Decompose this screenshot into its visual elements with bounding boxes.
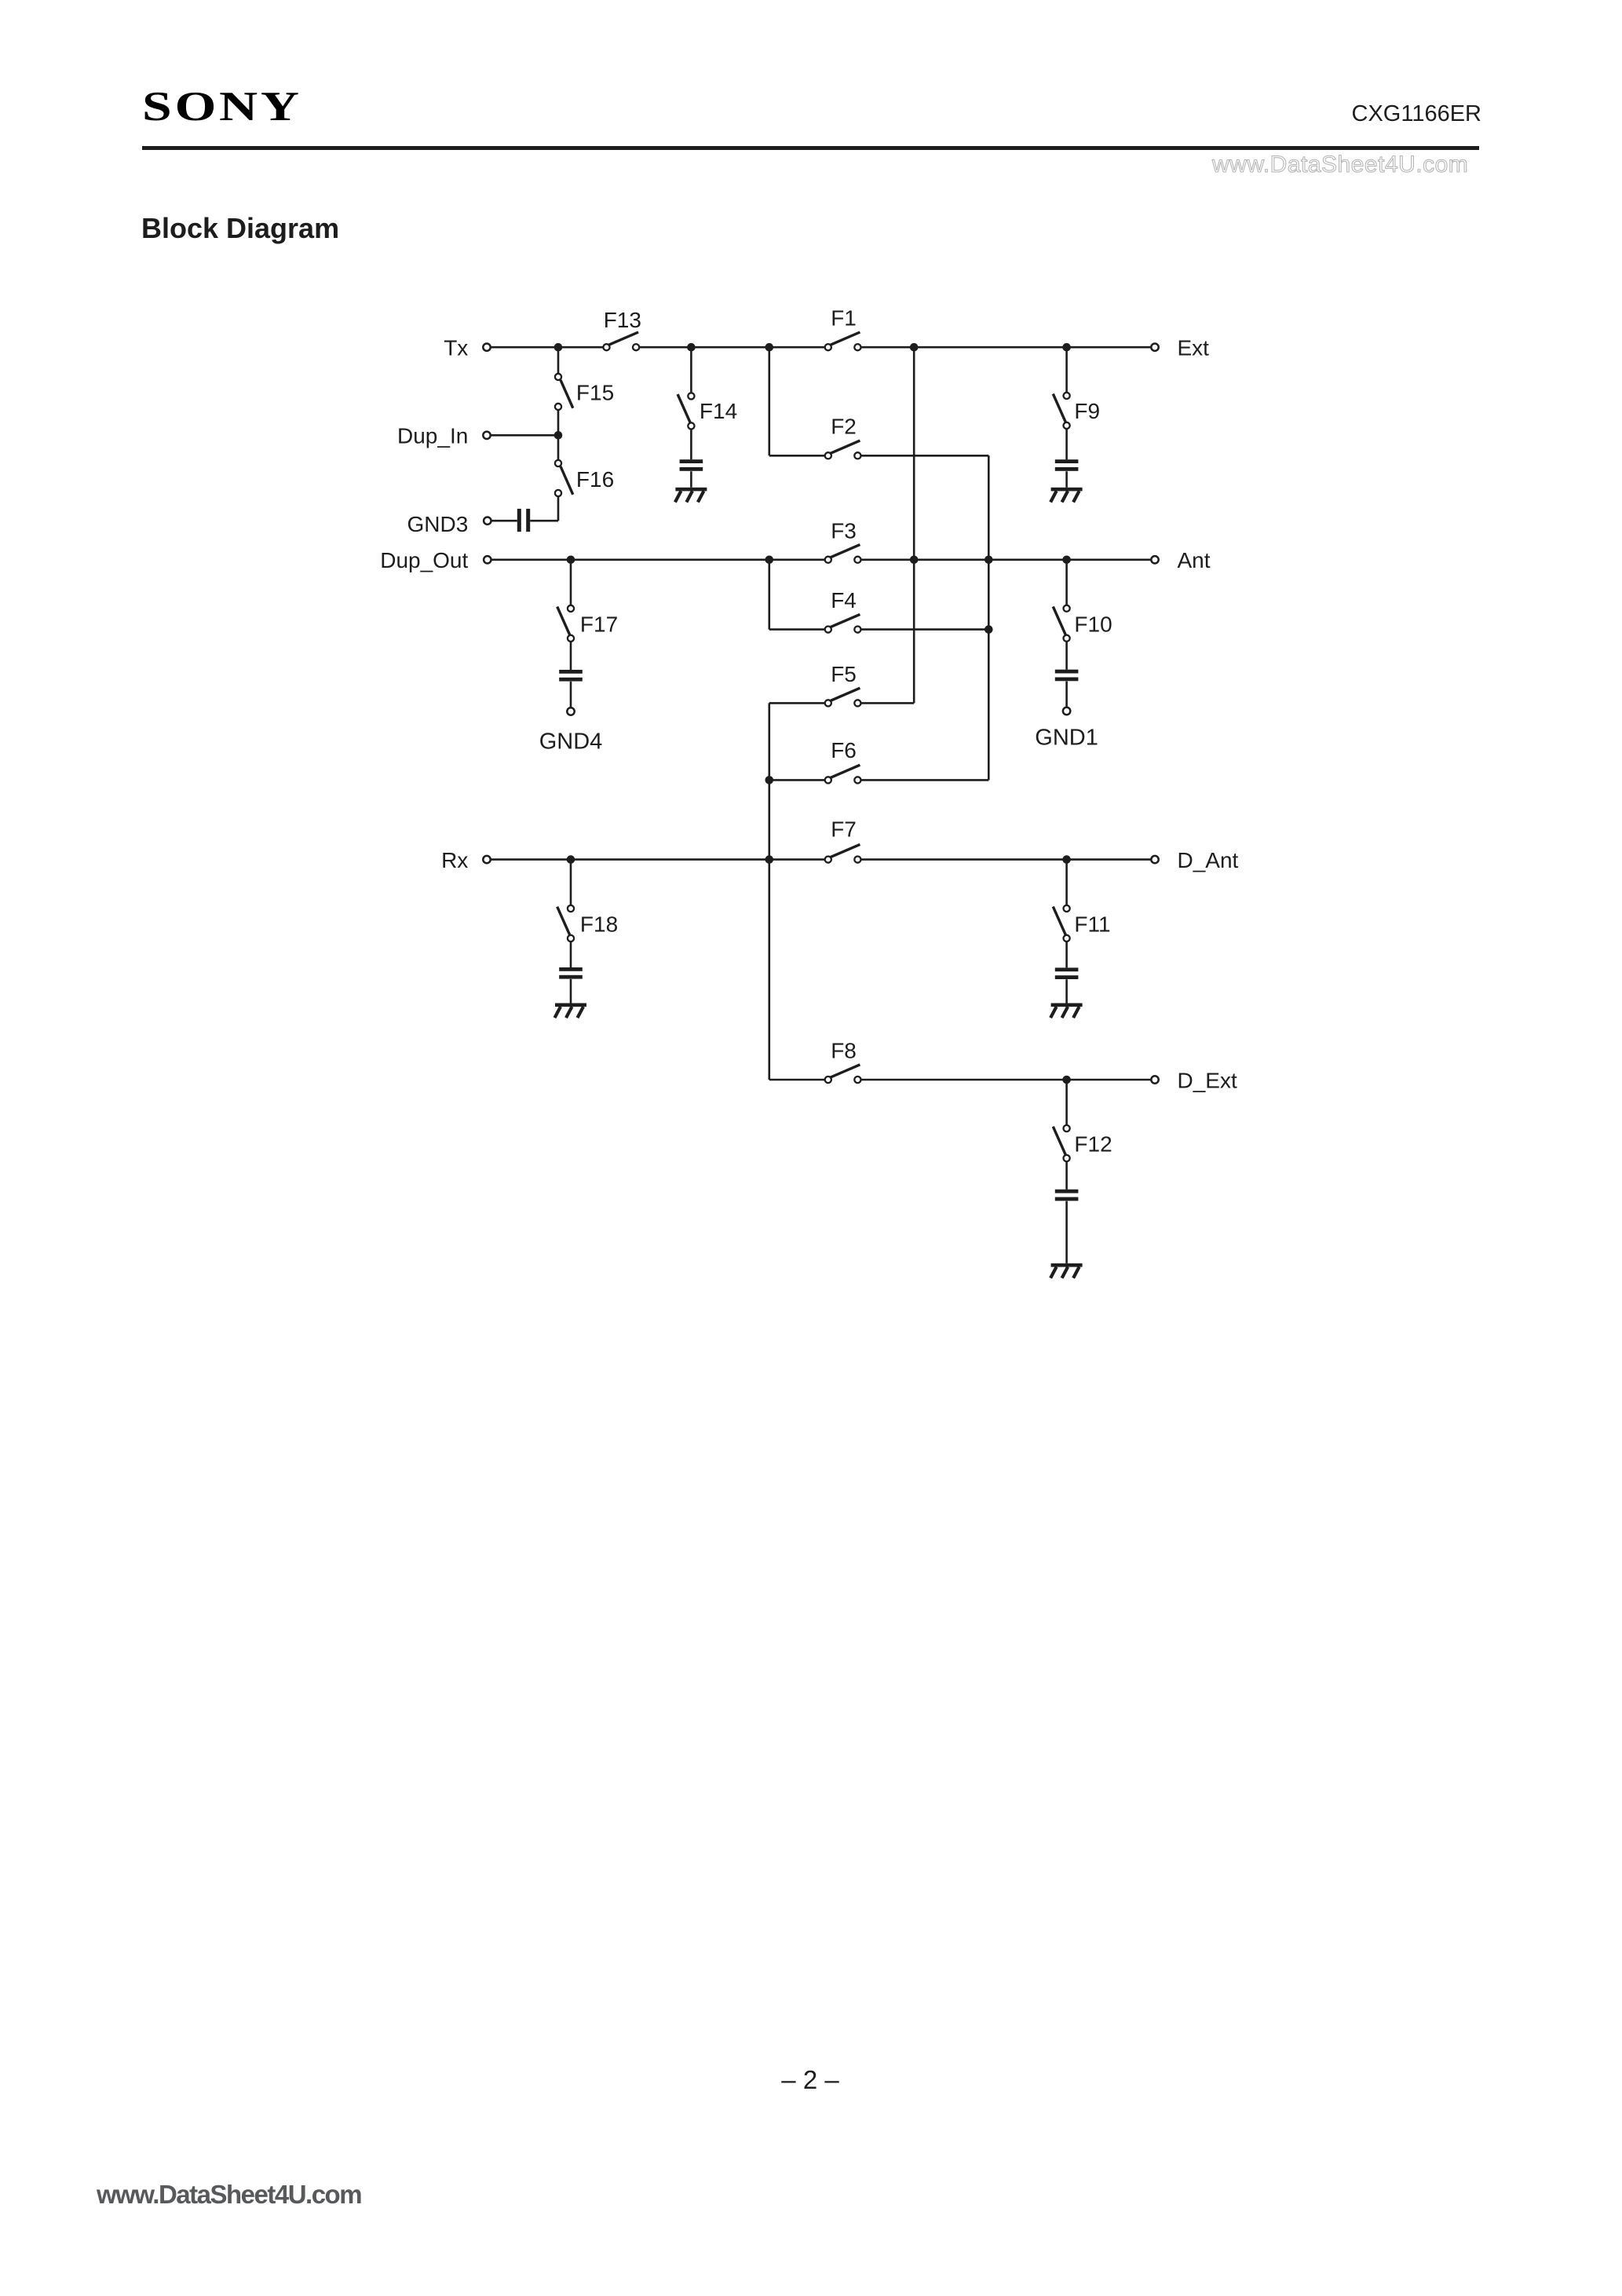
junction Rx/bus-left (765, 855, 774, 864)
switch F16 (555, 460, 573, 496)
svg-text:F13: F13 (604, 308, 641, 332)
wire GND3 link (491, 520, 558, 522)
SONY logo (142, 83, 302, 130)
switch F13 (603, 332, 639, 350)
switch F18 (557, 905, 574, 941)
svg-text:GND4: GND4 (539, 729, 603, 754)
wire Dup_In stub (490, 434, 558, 437)
svg-text:F8: F8 (831, 1038, 857, 1062)
svg-text:Ant: Ant (1178, 548, 1211, 572)
switch F14 (678, 393, 694, 429)
ground F12 branch (1050, 1263, 1083, 1278)
terminal GND3 (484, 517, 491, 525)
junction Rx/F18 (567, 855, 575, 864)
wire F6 branch (769, 779, 989, 781)
svg-text:F10: F10 (1074, 612, 1112, 636)
switch F8 (825, 1065, 861, 1083)
switch F1 (825, 332, 861, 350)
switch F17 (557, 605, 574, 642)
svg-text:GND1: GND1 (1035, 725, 1098, 750)
page number (732, 2065, 889, 2095)
svg-text:F3: F3 (831, 518, 857, 543)
wire F2 branch (769, 455, 989, 457)
svg-text:F18: F18 (580, 912, 618, 936)
svg-text:GND3: GND3 (407, 512, 469, 536)
svg-text:Tx: Tx (444, 336, 468, 360)
svg-text:F15: F15 (576, 381, 614, 405)
capacitor F17 branch (559, 670, 583, 682)
svg-text:F6: F6 (831, 738, 857, 762)
ground F11 branch (1050, 1004, 1083, 1018)
junction Tx/F14 (687, 343, 696, 352)
switch F6 (825, 765, 861, 783)
wire bus Tx-to-F5 (right) (913, 347, 915, 703)
capacitor F14 branch (680, 459, 703, 471)
wire bus DupOut-to-F4 (768, 560, 770, 630)
terminal GND1 (1063, 707, 1070, 715)
capacitor F12 branch (1055, 1190, 1079, 1201)
title Block Diagram (141, 212, 339, 245)
capacitor F18 branch (559, 967, 583, 979)
svg-text:Dup_Out: Dup_Out (380, 548, 468, 572)
svg-text:F12: F12 (1074, 1132, 1112, 1156)
ground F18 branch (555, 1004, 587, 1018)
switch F2 (825, 441, 861, 459)
switch F11 (1053, 905, 1069, 941)
terminal Ext (1151, 344, 1158, 351)
terminal Dup_In (483, 432, 490, 439)
switch F10 (1053, 605, 1069, 642)
watermark www.DataSheet4U.com bottom (97, 2180, 361, 2210)
capacitor F10 branch (1055, 670, 1079, 682)
svg-text:F9: F9 (1074, 399, 1100, 423)
wire F14 column (690, 347, 692, 488)
junction Ant-rail/bus1 (910, 556, 919, 565)
junction Dup_Out/F17 (567, 556, 575, 565)
wire F9 column (1065, 347, 1068, 488)
capacitor F9 branch (1055, 459, 1079, 471)
switch F7 (825, 844, 861, 862)
terminal D_Ant (1151, 856, 1158, 863)
junction D_Ext/F12 (1062, 1076, 1071, 1084)
switch F12 (1053, 1125, 1069, 1161)
terminal Rx (483, 856, 490, 863)
svg-text:D_Ant: D_Ant (1178, 848, 1239, 872)
svg-text:F14: F14 (700, 399, 737, 423)
switch F9 (1053, 393, 1069, 429)
switch F4 (825, 614, 861, 632)
switch F3 (825, 545, 861, 563)
wire F8 / D_Ext branch (769, 1079, 1152, 1081)
watermark www.DataSheet4U.com top (1212, 152, 1468, 178)
wire F18 column (570, 860, 572, 1004)
svg-text:F11: F11 (1074, 912, 1110, 936)
junction Tx/F15 (554, 343, 563, 352)
svg-text:F7: F7 (831, 817, 857, 841)
ground F14 branch (675, 488, 707, 503)
svg-text:F5: F5 (831, 662, 857, 686)
junction F4/bus2 (985, 625, 993, 634)
svg-text:F17: F17 (580, 612, 618, 636)
terminal Dup_Out (484, 556, 491, 563)
wire bus F2-to-F6 (right) (988, 455, 990, 780)
terminal Tx (483, 344, 490, 351)
wire Tx rail (490, 346, 1151, 349)
wire Dup_Out / Ant rail (491, 558, 1151, 561)
junction Tx/right-bus (910, 343, 919, 352)
svg-text:F16: F16 (576, 467, 614, 492)
wire F12 column (1065, 1080, 1068, 1263)
junction Ext/F9 (1062, 343, 1071, 352)
wire F5 branch (769, 702, 914, 704)
junction Dup_Out/F4-bus (765, 556, 774, 565)
switch F5 (825, 688, 861, 706)
junction D_Ant/F11 (1062, 855, 1071, 864)
wire F11 column (1065, 860, 1068, 1004)
junction Tx/F2-bus (765, 343, 774, 352)
junction Dup_In/F16 (554, 431, 563, 440)
wire bus F5-to-F8 (768, 703, 770, 1080)
wire F10 column (1065, 560, 1068, 707)
junction F6/bus-left (765, 776, 774, 784)
wire F17 column (570, 560, 572, 708)
svg-text:Ext: Ext (1178, 336, 1210, 360)
svg-text:D_Ext: D_Ext (1178, 1068, 1237, 1092)
ground F9 branch (1050, 488, 1083, 503)
capacitor on GND3 link (517, 509, 530, 532)
part number CXG1166ER (1352, 101, 1482, 127)
svg-text:Rx: Rx (441, 848, 468, 872)
wire F4 branch (769, 628, 989, 631)
junction Ant-rail/bus2 (985, 556, 993, 565)
terminal D_Ext (1151, 1076, 1158, 1083)
wire Rx / D_Ant rail (490, 858, 1151, 861)
terminal Ant (1151, 556, 1158, 563)
wire bus Tx-to-F2 (768, 347, 770, 455)
wire F15/F16 column (557, 347, 560, 521)
svg-text:F4: F4 (831, 588, 857, 612)
svg-text:F2: F2 (831, 415, 857, 439)
capacitor F11 branch (1055, 967, 1079, 979)
junction Ant/F10 (1062, 556, 1071, 565)
switch F15 (555, 374, 573, 410)
svg-text:Dup_In: Dup_In (397, 424, 468, 448)
header rule (142, 146, 1479, 150)
terminal GND4 (567, 707, 574, 715)
svg-text:F1: F1 (831, 306, 857, 331)
